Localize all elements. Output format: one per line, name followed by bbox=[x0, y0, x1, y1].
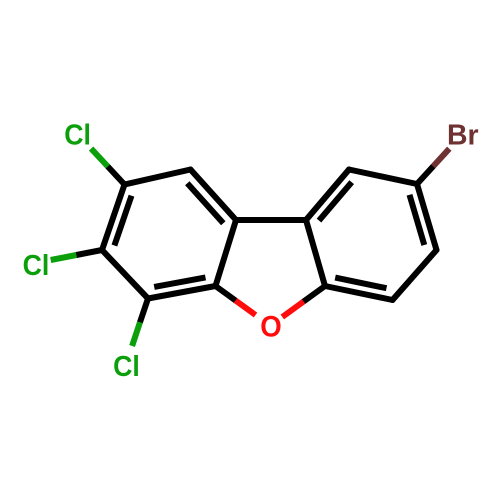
bond C4a-O (oxygen half) bbox=[236, 301, 256, 316]
svg-text:Br: Br bbox=[447, 119, 479, 151]
svg-text:Cl: Cl bbox=[23, 249, 50, 281]
bond C7-C6 bbox=[393, 250, 437, 300]
svg-text:Cl: Cl bbox=[113, 350, 140, 382]
bond C8-Br (bromine half) bbox=[433, 149, 449, 167]
bond C2-C3 inner line bbox=[114, 196, 131, 246]
bond C9a-C9 inner line bbox=[319, 182, 352, 220]
bond C9a-C9 (double, main) bbox=[306, 170, 349, 221]
bond C4-Cl (chlorine half) bbox=[132, 322, 140, 346]
bond C3-C4 bbox=[102, 250, 148, 299]
bond C3-Cl (chlorine half) bbox=[51, 255, 77, 260]
bond C8-C7 (double, main) bbox=[417, 184, 437, 250]
bond C9b-C9a (fusion bond) bbox=[236, 217, 306, 223]
bond C6-C5a (double, main) bbox=[325, 286, 393, 300]
bond C2-Cl (chlorine half) bbox=[91, 149, 108, 167]
bond C2-C3 (double, main) bbox=[102, 185, 125, 251]
bond C8-C7 inner line bbox=[410, 195, 425, 245]
bond C1-C2 bbox=[125, 170, 191, 185]
svg-text:Cl: Cl bbox=[64, 118, 91, 150]
bond C4a-O (carbon half) bbox=[216, 286, 236, 301]
bond C4a-C9b bbox=[216, 220, 237, 286]
bond C8-Br (carbon half) bbox=[417, 166, 433, 184]
bond C9-C8 bbox=[349, 170, 417, 185]
bond C9b-C1 (double, main) bbox=[191, 170, 237, 221]
bond C4-Cl (carbon half) bbox=[140, 299, 148, 323]
bond C5a-O (carbon half) bbox=[304, 286, 325, 302]
bond C6-C5a inner line bbox=[335, 278, 386, 289]
bond C3-Cl (carbon half) bbox=[76, 250, 102, 255]
svg-text:O: O bbox=[260, 310, 281, 343]
bond C5a-C9a bbox=[306, 220, 325, 286]
bond C2-Cl (carbon half) bbox=[108, 167, 125, 185]
bond C9b-C1 inner line bbox=[187, 183, 223, 223]
bond C5a-O (oxygen half) bbox=[282, 302, 303, 318]
bond C4-C4a (double, main) bbox=[148, 286, 216, 299]
bond C4-C4a inner line bbox=[154, 277, 205, 287]
